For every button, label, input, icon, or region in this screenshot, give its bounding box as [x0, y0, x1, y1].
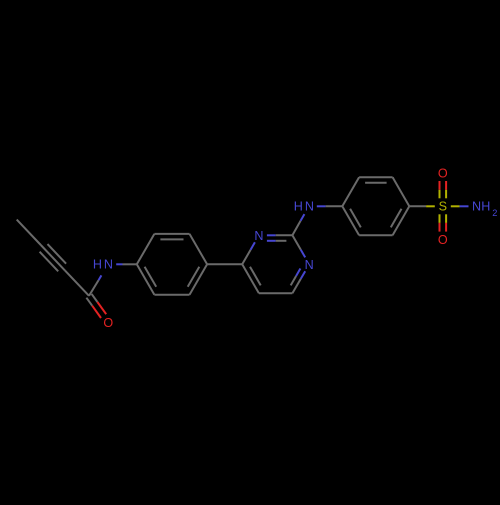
bond S-NH2 (half near first atom) [451, 205, 460, 207]
bond C(=O)-N(H) (half near first atom) [89, 280, 99, 296]
pyrimidine C=C [250, 267, 261, 286]
pyrimidine edge N=C lower (double) (half near second atom) [292, 279, 300, 294]
pyrimidine lower N=C inner (first half) [296, 269, 300, 277]
right ring edge E-TL [342, 177, 359, 206]
svg-text:O: O [103, 316, 113, 330]
biaryl bond phenyl-pyrimidine [207, 263, 242, 265]
pyrimidine edge C-N (ring N right) (half near first atom) [292, 235, 300, 250]
left ring edge D-BR (double) [190, 264, 208, 294]
pyrimidine N=C inner (first half) [267, 240, 276, 242]
pyrimidine edge N=C lower (double) (half near first atom) [301, 271, 305, 279]
svg-text:N: N [472, 199, 481, 213]
triple bond C#C side line [40, 252, 59, 272]
bond N(H)-phenyl (half near second atom) [123, 263, 137, 265]
right ring edge TR-H [393, 177, 410, 206]
pyrimidine lower N=C inner (second half) [291, 276, 296, 285]
svg-text:N: N [254, 229, 263, 243]
C=O double line (carbon half) [86, 298, 92, 306]
right ring edge H-BR (double) [393, 206, 410, 235]
pyrimidine edge C-N (ring N right) (half near second atom) [301, 250, 305, 258]
bond C(sp)-C(=O) [65, 270, 89, 295]
svg-text:2: 2 [492, 208, 497, 218]
S=O top line (S half) [439, 190, 441, 199]
svg-text:N: N [305, 199, 314, 213]
pyrimidine edge C-N (ring N top-left) (half near first atom) [242, 250, 250, 264]
pyrimidine edge C=C (double) [242, 264, 259, 293]
left ring [188, 267, 200, 287]
bond NH-phenyl (right) (half near first atom) [317, 205, 326, 207]
bond C2-NH linker (half near first atom) [292, 221, 300, 236]
left ring edge TR-D [190, 234, 208, 264]
pyrimidine edge C-C bottom [259, 292, 293, 294]
svg-text:H: H [481, 199, 490, 213]
bond C(=O)-N(H) (half near second atom) [99, 275, 102, 280]
bond C2-NH linker (half near second atom) [301, 214, 305, 221]
right ring edge BR-BL [359, 234, 393, 236]
S=O top line (O half) [445, 181, 447, 190]
pyrimidine N=C inner (second half) [276, 240, 287, 242]
left ring [160, 238, 183, 240]
svg-text:O: O [438, 166, 448, 180]
bond NH-phenyl (right) (half near second atom) [326, 205, 343, 207]
bond S-NH2 (half near second atom) [460, 205, 469, 207]
right ring edge BL-E (double) [342, 206, 359, 235]
svg-text:H: H [93, 257, 102, 271]
pyrimidine edge N=C (double) (half near second atom) [276, 234, 293, 236]
S=O top line (O half) [439, 181, 441, 190]
left ring edge TL-TR (double) [154, 233, 189, 235]
pyrimidine edge C-N (ring N top-left) (half near second atom) [251, 242, 255, 250]
left ring edge BL-A (double) [137, 264, 155, 294]
S=O bottom line (O half) [439, 223, 441, 232]
left ring edge A-TL [137, 234, 155, 264]
C=O double line (oxygen half) [97, 302, 106, 314]
bond phenyl-S (half near first atom) [409, 205, 426, 207]
right ring edge TL-TR (double) [359, 176, 393, 178]
triple bond C#C side line [48, 244, 67, 264]
left ring edge BR-BL [154, 294, 189, 296]
svg-text:N: N [305, 258, 314, 272]
pyrimidine edge N=C (double) (half near first atom) [267, 234, 276, 236]
S=O top line (S half) [445, 190, 447, 199]
bond phenyl-S (half near second atom) [426, 205, 435, 207]
right ring [350, 209, 361, 228]
bond CH3-C(sp) [17, 220, 41, 245]
C=O double line (carbon half) [92, 294, 98, 302]
S=O bottom line (O half) [445, 223, 447, 232]
svg-text:H: H [294, 199, 303, 213]
svg-text:S: S [439, 199, 447, 213]
triple bond C#C main line [41, 245, 65, 270]
right ring [391, 209, 402, 228]
S=O bottom line (S half) [439, 214, 441, 223]
svg-text:N: N [104, 257, 113, 271]
bond N(H)-phenyl (half near first atom) [116, 263, 122, 265]
C=O double line (oxygen half) [92, 306, 101, 318]
right ring [365, 182, 387, 184]
S=O bottom line (S half) [445, 214, 447, 223]
left ring [145, 267, 157, 287]
svg-text:O: O [438, 233, 448, 247]
